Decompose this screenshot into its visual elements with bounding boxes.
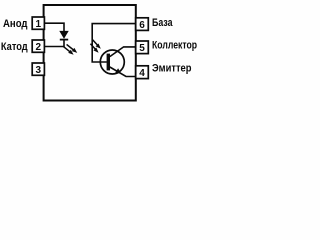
svg-text:5: 5 <box>139 43 145 54</box>
pin 6 box <box>136 18 149 31</box>
svg-text:4: 4 <box>139 68 145 79</box>
pin 5 box <box>136 41 149 54</box>
svg-text:База: База <box>152 17 173 29</box>
transistor base bar <box>107 54 110 71</box>
wire: collector lead to pin 5 <box>110 47 136 57</box>
svg-text:3: 3 <box>36 65 42 76</box>
LED emission arrow 2 <box>67 44 78 53</box>
svg-text:Катод: Катод <box>1 41 28 53</box>
LED cathode bar <box>60 39 68 41</box>
svg-text:2: 2 <box>36 42 42 53</box>
svg-text:Коллектор: Коллектор <box>152 40 197 52</box>
svg-text:1: 1 <box>36 19 42 30</box>
wire: pin 1 to LED anode <box>44 23 64 31</box>
wire: LED cathode to pin 2 <box>44 40 64 46</box>
LED emission arrow 1 <box>63 46 74 55</box>
light arrow into phototransistor 1 <box>93 40 101 49</box>
pin 2 box <box>32 40 44 53</box>
phototransistor VT circle <box>100 50 124 74</box>
pin 1 box <box>32 17 44 30</box>
IC package body outline <box>44 5 136 101</box>
LED diode D (triangle, cathode down) <box>60 31 68 38</box>
emitter arrowhead <box>115 68 121 73</box>
light arrow into phototransistor 2 <box>90 44 98 53</box>
pin 4 box <box>136 66 149 79</box>
wire: base lead from pin 6 (net base) <box>92 24 136 62</box>
svg-text:Эмиттер: Эмиттер <box>152 63 192 75</box>
svg-text:6: 6 <box>139 20 145 31</box>
pin 3 box <box>32 63 44 76</box>
svg-text:Анод: Анод <box>3 18 28 30</box>
wire: emitter lead to pin 4 <box>110 67 136 77</box>
